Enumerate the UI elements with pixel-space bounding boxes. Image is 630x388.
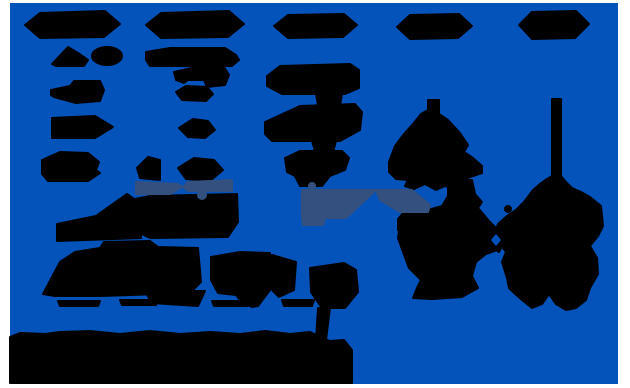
header 5 bbox=[519, 11, 589, 39]
bottom row left blob bbox=[43, 241, 201, 296]
col1 row3 foot blob bbox=[51, 81, 104, 103]
small blob left of col2 row5 bbox=[137, 157, 160, 180]
glass1 base left lobe bbox=[398, 209, 431, 238]
glass1 neck and base blob bbox=[398, 178, 498, 299]
col2 row4 diamond bbox=[179, 119, 215, 138]
middle main mass bbox=[130, 194, 238, 238]
col2 hook blob bbox=[174, 67, 229, 87]
header 4 bbox=[397, 14, 472, 39]
navy block right bbox=[376, 190, 430, 212]
navy wedge A bbox=[136, 182, 182, 194]
bottom row lower small blob bbox=[145, 291, 205, 306]
kiss diamond between bases bbox=[488, 228, 506, 252]
col1 row2 triangle bbox=[52, 47, 88, 66]
bottom black block bbox=[10, 331, 352, 383]
header 3 bbox=[274, 14, 357, 38]
col3 stack connector 2 bbox=[312, 141, 336, 152]
col3 stack connector 1 bbox=[316, 94, 342, 106]
glass2 pole bbox=[552, 99, 561, 178]
col2 row3 small blob bbox=[176, 86, 213, 101]
glass1 stem and cone body bbox=[389, 100, 482, 190]
col1 row5 blob bbox=[42, 152, 100, 181]
col1 row4 arrow bbox=[52, 116, 113, 138]
fringe dash 1 bbox=[58, 301, 100, 306]
navy wedge B bbox=[183, 180, 232, 191]
bottom row mid-right lobe bbox=[272, 255, 296, 297]
header 2 bbox=[146, 11, 244, 38]
col3 stack top bar bbox=[267, 64, 359, 94]
bottom row right blob bbox=[310, 263, 358, 308]
fringe dash 4 bbox=[282, 300, 314, 306]
navy dot 2 bbox=[309, 183, 315, 189]
col3 stack middle bar bbox=[265, 104, 362, 141]
middle ramp left wedge bbox=[57, 194, 141, 241]
col2 row5 diamond bbox=[178, 158, 223, 181]
bottom row mid blob bbox=[211, 252, 270, 307]
blue diamond hole at glass kiss bbox=[491, 234, 501, 246]
header 1 bbox=[25, 11, 120, 38]
fringe dash 2 bbox=[120, 300, 158, 305]
col3 stack bottom bar bbox=[285, 151, 349, 186]
col2 row2 long blob bbox=[146, 48, 239, 66]
navy block left bbox=[302, 190, 376, 225]
fringe dash 3 bbox=[212, 301, 250, 306]
glass1 base small dot bbox=[505, 206, 511, 212]
navy dot bbox=[198, 191, 206, 199]
connector to bottom block bbox=[316, 308, 330, 340]
col1 row2 oval bbox=[92, 47, 122, 65]
glass2 funnel and base blob bbox=[494, 176, 603, 310]
